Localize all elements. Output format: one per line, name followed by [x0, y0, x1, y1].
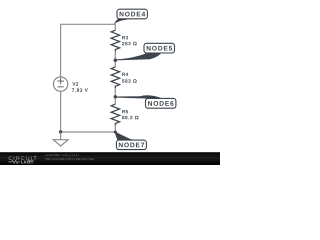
footer text line2 — [45, 158, 93, 161]
junction ground node — [59, 130, 62, 133]
label V2 — [72, 82, 78, 85]
node NODE7 flag — [115, 131, 147, 149]
ground — [53, 132, 68, 146]
junction node5 — [114, 59, 117, 62]
footer bar — [0, 152, 220, 165]
voltage source V2 — [53, 77, 67, 91]
wire R3 to R4 — [114, 51, 116, 67]
node NODE6 flag — [115, 95, 176, 108]
wire R5 to bottom — [114, 125, 116, 132]
junction node6 — [114, 95, 117, 98]
node NODE5 flag — [115, 43, 174, 60]
wire left vertical lower — [60, 91, 62, 132]
value 283 ohm — [122, 42, 137, 45]
wire chain top stub — [114, 24, 116, 31]
resistor R3 — [111, 30, 119, 51]
resistor R4 — [111, 67, 119, 88]
label R5 — [122, 110, 128, 113]
circuitlab logo — [8, 156, 36, 163]
value 583 ohm — [122, 79, 137, 82]
junction node7 — [114, 131, 117, 134]
wire top horizontal — [61, 23, 116, 25]
label R3 — [122, 36, 128, 39]
wire R4 to R5 — [114, 88, 116, 105]
resistor R5 — [111, 104, 119, 125]
footer text line1 — [45, 154, 78, 157]
value 7.83 V — [72, 88, 88, 91]
node NODE4 flag — [114, 9, 147, 24]
wire left vertical upper — [60, 24, 62, 77]
value 88.3 ohm — [122, 116, 139, 119]
wire bottom horizontal — [61, 131, 116, 133]
label R4 — [122, 73, 128, 76]
